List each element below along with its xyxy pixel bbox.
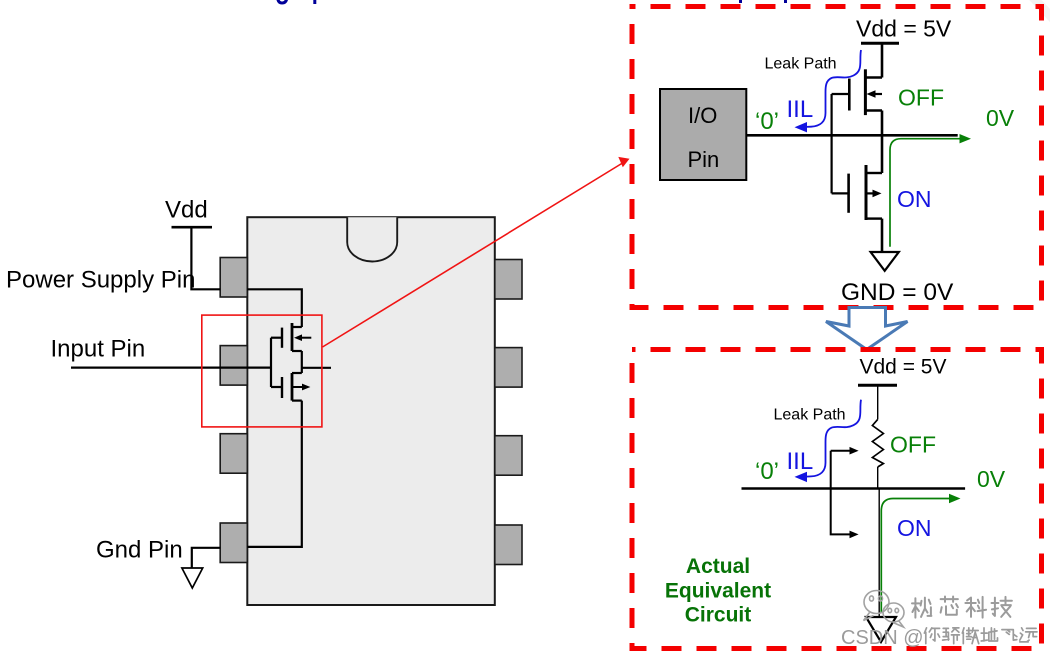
pin 2 (left) [220, 346, 247, 386]
wire gnd pin [192, 548, 220, 568]
red callout line [323, 162, 626, 348]
svg-text:OFF: OFF [890, 432, 936, 458]
svg-text:Vdd = 5V: Vdd = 5V [860, 356, 947, 379]
pin 4 (left) [220, 523, 247, 563]
transistor Q2 NMOS (in chip) [271, 373, 302, 401]
resistor R (leakage, OFF) [872, 419, 883, 467]
wire node to ground (bottom box) [878, 489, 880, 618]
svg-text:Gnd Pin: Gnd Pin [96, 537, 183, 564]
NMOS arrow (in chip) [302, 384, 310, 391]
pin 6 (right) [495, 436, 522, 476]
green current curve (top box) [890, 139, 961, 247]
bracket arrowhead top [850, 447, 859, 455]
svg-text:CSDN @: CSDN @ [841, 627, 924, 649]
svg-text:‘0’: ‘0’ [755, 458, 779, 485]
gates connector wire [830, 94, 832, 193]
svg-text:ON: ON [897, 186, 932, 212]
transistor NMOS (top box) [832, 165, 882, 220]
svg-text:Leak Path: Leak Path [774, 407, 846, 424]
NMOS arrow (top box) [873, 190, 882, 198]
wire node to NMOS drain [881, 135, 884, 173]
ground symbol (top box) [871, 252, 899, 271]
svg-text:0V: 0V [986, 105, 1015, 131]
wire Vdd to pin1 [191, 227, 220, 289]
Vdd rail bar (bottom box) [858, 384, 897, 387]
svg-text:Vdd: Vdd [165, 197, 208, 224]
svg-text:Equivalent: Equivalent [665, 580, 771, 603]
green arrowhead (bottom box) [949, 494, 961, 503]
inverter gate connector [270, 338, 272, 387]
pin 5 (right) [495, 525, 522, 565]
internal wire: power pin to inverter [247, 289, 301, 327]
svg-text:Vdd = 5V: Vdd = 5V [856, 16, 952, 42]
Vdd supply bar [172, 226, 213, 229]
pin 3 (left) [220, 434, 247, 474]
bracket arrowhead bottom [850, 531, 859, 539]
node: main I/O wire [746, 134, 957, 137]
pin 1 (left) [220, 258, 247, 298]
svg-text:‘0’: ‘0’ [755, 108, 779, 135]
svg-text:IIL: IIL [787, 448, 814, 475]
PMOS arrow (in chip) [294, 334, 302, 341]
green current curve (bottom box) [881, 499, 951, 613]
I/O Pin box [660, 89, 746, 180]
blue block arrow between boxes [826, 308, 908, 350]
wire PMOS drain to node [881, 111, 884, 136]
red callout arrowhead [618, 157, 629, 167]
svg-text:GND = 0V: GND = 0V [841, 279, 954, 306]
pin 8 (right) [495, 260, 522, 300]
bracket with arrows [831, 451, 851, 535]
svg-text:Circuit: Circuit [685, 604, 752, 627]
wire rail to resistor [877, 385, 879, 419]
svg-text:ON: ON [897, 515, 932, 541]
wire resistor to node [877, 467, 879, 489]
transistor PMOS (top box) [832, 69, 882, 115]
svg-text:Leak Path: Leak Path [765, 56, 837, 73]
wire rail to PMOS source [881, 43, 884, 77]
ground symbol (left) [182, 568, 203, 588]
leak path curve (top box, blue) [806, 50, 861, 127]
wire NMOS source to ground [881, 219, 884, 252]
svg-text:Input Pin: Input Pin [51, 336, 146, 363]
dashed box (normal operation) [632, 7, 1042, 308]
svg-text:Power Supply Pin: Power Supply Pin [6, 267, 195, 294]
transistor Q1 PMOS (in chip) [271, 323, 311, 351]
PMOS arrow (top box) [867, 90, 876, 98]
title remnant (cut-off blue heading descenders) [278, 0, 786, 4]
inverter mid vertical [301, 351, 303, 373]
svg-text:OFF: OFF [898, 85, 944, 111]
faint watermark smudge top-right [1026, 0, 1050, 22]
wire input pin [71, 367, 271, 369]
chip notch [347, 217, 397, 261]
red highlight box [202, 315, 322, 427]
watermark logo bubbles [864, 591, 905, 628]
svg-text:0V: 0V [977, 466, 1006, 492]
inverter output stub [302, 367, 331, 369]
leak path arrowhead (top box) [795, 122, 808, 132]
leak path curve (bottom box, blue) [806, 400, 861, 477]
ground symbol (bottom box) [866, 617, 896, 642]
svg-text:Actual: Actual [686, 555, 750, 578]
leak path arrowhead (bottom box) [795, 472, 808, 482]
svg-text:I/O: I/O [688, 103, 717, 128]
main node wire (bottom box) [742, 487, 966, 490]
pin 7 (right) [495, 348, 522, 388]
dashed box (actual equivalent circuit) [632, 350, 1042, 649]
internal wire: inverter to gnd pin [247, 401, 301, 547]
svg-text:Pin: Pin [688, 147, 720, 172]
Vdd rail bar (top box) [861, 42, 899, 45]
svg-text:IIL: IIL [787, 96, 814, 123]
watermark brand text [912, 597, 1012, 618]
green arrowhead (top box) [960, 134, 972, 143]
chip body U1 [247, 217, 494, 605]
